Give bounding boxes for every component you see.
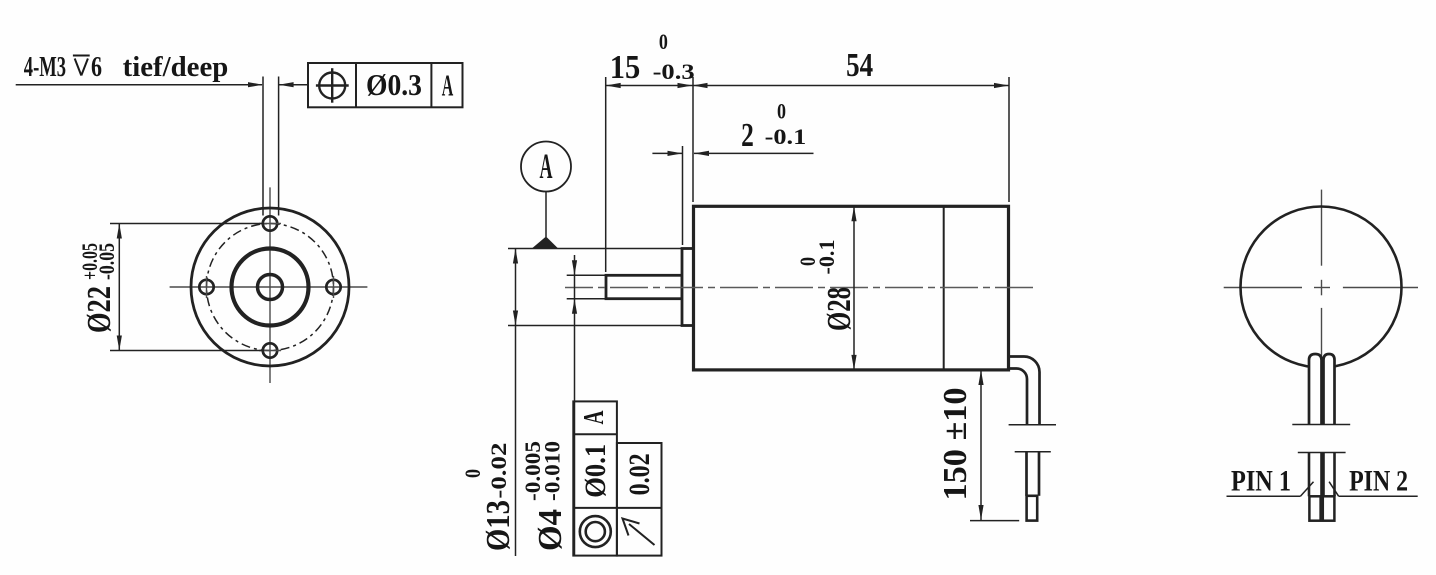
extension line hole right xyxy=(278,77,280,216)
svg-text:0.02: 0.02 xyxy=(623,453,656,495)
centerline vertical xyxy=(1321,190,1323,266)
arrow phi22 top xyxy=(117,224,122,239)
arrow 150 top xyxy=(978,370,983,385)
arrow 15 left xyxy=(606,83,621,88)
bolt circle (dash-dot) xyxy=(207,224,334,351)
centerline vertical xyxy=(269,187,271,383)
extension top xyxy=(110,223,264,225)
hole tick right xyxy=(333,276,335,298)
arrow to hole left xyxy=(248,82,263,87)
mounting hole left xyxy=(199,280,213,294)
dimension phi13 xyxy=(508,249,682,557)
dimension phi4 xyxy=(567,255,605,556)
svg-text:54: 54 xyxy=(846,47,873,84)
wire (side view) xyxy=(1009,357,1040,496)
arrow phi13 bottom xyxy=(513,311,518,326)
mounting hole top xyxy=(263,216,277,230)
shaft xyxy=(606,275,682,298)
runout arrow (open head) xyxy=(623,519,655,546)
ext body front xyxy=(692,77,694,202)
svg-text:PIN 1: PIN 1 xyxy=(1231,465,1291,498)
right lead line xyxy=(694,152,814,154)
centerline xyxy=(565,287,1037,289)
svg-text:0: 0 xyxy=(659,29,668,54)
arrow phi4 bottom (pointing up) xyxy=(572,299,577,314)
svg-text:0: 0 xyxy=(460,469,485,478)
wire outer line xyxy=(1009,357,1040,425)
frame leader xyxy=(279,84,308,86)
wire tip left xyxy=(1309,496,1320,520)
wire left (rounded top) xyxy=(1309,354,1322,425)
svg-text:PIN 2: PIN 2 xyxy=(1349,465,1408,498)
boss circle phi13 (thick) xyxy=(232,249,309,326)
svg-text:-0.010: -0.010 xyxy=(540,441,565,501)
PIN 1 underline + leader xyxy=(1227,482,1314,497)
svg-text:A: A xyxy=(540,146,553,186)
svg-text:Ø22: Ø22 xyxy=(81,286,118,333)
arrow 150 bottom xyxy=(978,505,983,520)
svg-text:tief/deep: tief/deep xyxy=(123,52,229,83)
svg-text:A: A xyxy=(579,410,610,425)
svg-text:-0.02: -0.02 xyxy=(486,443,511,499)
wire right (rounded top) xyxy=(1324,354,1335,425)
svg-text:2: 2 xyxy=(741,117,754,154)
svg-text:-0.1: -0.1 xyxy=(814,240,839,275)
wire inner line xyxy=(1009,369,1028,425)
flange outer circle xyxy=(191,208,349,366)
arrow phi28 top xyxy=(851,206,856,221)
hole tick left xyxy=(206,276,208,298)
dim line + leader down xyxy=(515,249,517,557)
break line 1 xyxy=(1009,424,1056,426)
rear circle xyxy=(1241,207,1402,368)
break line 1 xyxy=(1292,424,1350,426)
svg-text:-0.3: -0.3 xyxy=(653,59,695,84)
extension bottom xyxy=(970,520,1019,522)
break line 2 xyxy=(1298,452,1346,454)
dim line 15 xyxy=(606,85,693,87)
dimension phi22 xyxy=(110,224,264,351)
arrow 2 right (pointing left) xyxy=(694,151,709,156)
concentricity symbol inner xyxy=(586,522,605,541)
leader line xyxy=(16,84,262,86)
svg-text:0: 0 xyxy=(777,99,786,124)
ext top xyxy=(567,274,605,276)
svg-text:Ø4: Ø4 xyxy=(532,509,569,551)
svg-text:4-M3: 4-M3 xyxy=(24,52,66,83)
wire lower segment right xyxy=(1038,452,1041,496)
position symbol xyxy=(319,73,345,99)
concentricity symbol outer xyxy=(580,516,611,547)
wire lower segment left xyxy=(1025,452,1028,496)
centerline horizontal xyxy=(1224,287,1302,289)
arrow 54 right xyxy=(994,83,1009,88)
dimension line xyxy=(980,370,982,520)
position tolerance frame xyxy=(308,63,463,107)
ext top xyxy=(508,248,682,250)
arrow phi13 top xyxy=(513,249,518,264)
datum leader xyxy=(545,192,547,238)
motor body xyxy=(694,206,1009,370)
arrow phi28 bottom xyxy=(851,355,856,370)
extension bottom xyxy=(110,350,264,352)
dim line 54 xyxy=(693,85,1010,87)
ext shaft tip xyxy=(605,77,607,272)
arrow 15 right xyxy=(678,83,693,88)
dimension 150 +-10 xyxy=(970,370,1019,521)
leader note 4-M3 depth 6 xyxy=(16,77,308,216)
dimension phi28 xyxy=(853,206,855,370)
svg-text:6: 6 xyxy=(91,52,102,83)
hole tick top xyxy=(259,223,281,225)
arrow 2 left (pointing right) xyxy=(668,151,683,156)
wire lower segments xyxy=(1308,453,1311,497)
wire tip right xyxy=(1323,496,1335,520)
svg-text:Ø0.3: Ø0.3 xyxy=(366,67,422,102)
ext bottom xyxy=(567,298,605,300)
dimension line xyxy=(118,224,120,351)
break line 2 xyxy=(1015,451,1051,453)
depth symbol xyxy=(73,56,90,76)
dimension 15 0/-0.3 and 54 xyxy=(606,77,1009,272)
svg-text:Ø0.1: Ø0.1 xyxy=(579,444,612,498)
svg-text:-0.05: -0.05 xyxy=(94,243,119,280)
PIN 2 underline + leader xyxy=(1329,482,1418,497)
dim line + leader down xyxy=(574,255,576,556)
hole tick bottom xyxy=(259,350,281,352)
mounting hole bottom xyxy=(263,343,277,357)
datum A balloon xyxy=(521,142,571,192)
arrow phi4 top (pointing down) xyxy=(572,260,577,275)
svg-text:Ø28: Ø28 xyxy=(821,287,858,331)
left lead line xyxy=(652,152,682,154)
svg-text:150 ±10: 150 ±10 xyxy=(937,388,974,501)
front boss xyxy=(682,249,694,326)
body divider line xyxy=(943,206,945,370)
rotated runout frame xyxy=(617,443,662,556)
svg-text:-0.1: -0.1 xyxy=(765,124,807,149)
mounting hole right xyxy=(326,280,340,294)
ext boss left xyxy=(682,146,684,245)
arrow to hole right xyxy=(279,82,294,87)
wire tip xyxy=(1027,496,1038,521)
svg-text:15: 15 xyxy=(610,49,641,86)
svg-text:Ø13: Ø13 xyxy=(480,500,517,551)
rotated concentricity frame xyxy=(573,401,617,555)
shaft circle phi4 xyxy=(258,275,283,300)
dimension 2 0/-0.1 xyxy=(652,146,813,245)
extension line hole left xyxy=(262,77,264,216)
centerline horizontal xyxy=(170,286,368,288)
datum triangle xyxy=(532,237,558,249)
ext body rear xyxy=(1008,77,1010,202)
arrow 54 left xyxy=(693,83,708,88)
svg-text:A: A xyxy=(442,67,454,102)
arrow phi22 bottom xyxy=(117,336,122,351)
ext bottom xyxy=(508,325,682,327)
